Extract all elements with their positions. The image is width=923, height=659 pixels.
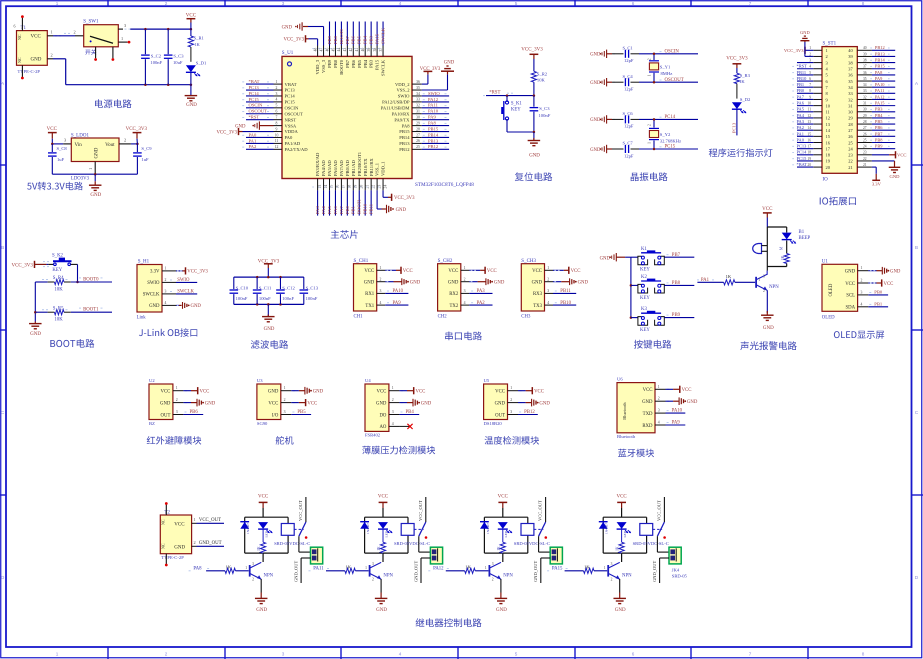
svg-text:2: 2 (252, 577, 254, 581)
svg-text:2: 2 (74, 30, 76, 35)
svg-text:6: 6 (632, 651, 635, 656)
net label VCC_OUT at T2 (192, 522, 197, 524)
svg-text:4: 4 (399, 1, 402, 6)
svg-text:GND: GND (191, 304, 202, 309)
svg-text:PB0: PB0 (345, 205, 350, 214)
relay coil SRD-05VDC-SL-C PA11 (401, 524, 414, 536)
U2 pin 3 OUT (173, 414, 184, 416)
svg-text:LDO3V3: LDO3V3 (71, 177, 90, 182)
net label PA1 alarm (697, 281, 723, 283)
power port VCC U5 (520, 390, 522, 392)
svg-text:1: 1 (380, 266, 382, 270)
svg-text:GND: GND (376, 608, 387, 613)
svg-text:JK4: JK4 (672, 567, 680, 572)
title module FSR402 (362, 446, 435, 455)
svg-text:5: 5 (515, 1, 518, 6)
U1 pin 25 PB12 (412, 148, 422, 150)
svg-text:PB15: PB15 (875, 64, 886, 69)
svg-text:PB4: PB4 (875, 113, 883, 118)
svg-text:2: 2 (809, 52, 811, 56)
svg-text:Bluetooth: Bluetooth (617, 434, 636, 439)
svg-text:S_D2: S_D2 (740, 97, 751, 102)
capacitor S_C2 100nF (144, 29, 146, 54)
ST1 pin 15 (813, 135, 822, 137)
ground GND J-Link pin4 (176, 304, 179, 306)
ground GND U6 (667, 400, 669, 402)
svg-text:PA4: PA4 (797, 113, 805, 118)
svg-text:PB10: PB10 (363, 203, 368, 214)
svg-text:2: 2 (648, 124, 652, 126)
svg-text:1: 1 (658, 385, 660, 389)
svg-text:2: 2 (611, 577, 613, 581)
svg-text:GND: GND (205, 401, 216, 406)
svg-text:NC: NC (17, 57, 22, 63)
wire relay snubber frame PA15 (603, 517, 646, 562)
svg-text:7: 7 (809, 83, 811, 87)
net label PA10 U6 (666, 412, 686, 414)
svg-text:VBAT: VBAT (285, 82, 297, 87)
connector S_CH1 body (354, 264, 377, 311)
svg-text:45: 45 (331, 48, 335, 52)
emitter wire to ground relay PA11 (380, 579, 382, 593)
svg-text:S_C8: S_C8 (57, 146, 68, 151)
svg-text:4: 4 (392, 422, 394, 426)
svg-text:*BAT: *BAT (249, 79, 260, 84)
U3 pin 2 VCC (281, 402, 292, 404)
svg-text:23: 23 (863, 151, 867, 155)
CH2 pin 2 GND (461, 281, 470, 283)
relay contact dashed link PA15 (653, 528, 662, 530)
relay pole wire VCC_OUT PA8 (305, 497, 307, 522)
svg-text:3: 3 (392, 410, 394, 414)
ST1 pin 14 (813, 129, 822, 131)
svg-text:VCC: VCC (174, 522, 185, 527)
LED relay PA11 (378, 522, 388, 529)
svg-text:2: 2 (492, 577, 494, 581)
svg-text:4: 4 (399, 651, 402, 656)
svg-text:PA5/AD: PA5/AD (327, 160, 332, 176)
svg-text:PB6: PB6 (351, 59, 356, 68)
svg-text:VCC: VCC (378, 494, 389, 499)
svg-text:1: 1 (485, 566, 487, 570)
svg-text:*RST: *RST (249, 115, 260, 120)
svg-text:*RST: *RST (797, 64, 808, 69)
title OLED display (834, 331, 884, 339)
svg-text:100nF: 100nF (150, 60, 162, 65)
svg-text:PA9: PA9 (672, 421, 681, 426)
ST1 pin 32 (857, 98, 872, 100)
ground GND alarm (766, 311, 768, 315)
ST1 pin 3 (813, 62, 822, 64)
U1 pin 16 PA6/AD (334, 179, 336, 191)
ST1 pin 17 (813, 148, 822, 150)
ST1 pin 20 (813, 166, 822, 168)
svg-text:PA0: PA0 (249, 132, 257, 137)
LED alarm (786, 227, 788, 233)
capacitor S_C1 12pF (613, 53, 615, 55)
SW1 bottom pins (95, 47, 97, 59)
svg-text:BOOT0: BOOT0 (339, 28, 344, 44)
svg-text:5: 5 (809, 71, 811, 75)
svg-text:GND: GND (578, 281, 589, 286)
svg-text:GND: GND (174, 545, 185, 550)
svg-text:CH2: CH2 (438, 315, 448, 320)
ST1 pin 24 (857, 148, 872, 150)
terminal bottom pin to GND_OUT PA15 (660, 557, 669, 559)
net label PB8 (664, 284, 694, 286)
svg-text:OSCIN: OSCIN (285, 106, 299, 111)
svg-text:38: 38 (863, 58, 867, 62)
svg-text:1N4007: 1N4007 (605, 523, 609, 534)
switch S_SW1 (84, 25, 119, 47)
svg-text:6: 6 (14, 24, 16, 29)
svg-text:NPN: NPN (383, 573, 393, 578)
svg-text:VCC_OUT: VCC_OUT (418, 500, 423, 521)
svg-text:SRD-05VDC-SL-C: SRD-05VDC-SL-C (394, 541, 430, 546)
svg-text:S_R4: S_R4 (53, 276, 64, 281)
svg-text:1: 1 (51, 30, 53, 35)
svg-text:21: 21 (848, 165, 852, 170)
ground GND CH3 (553, 281, 561, 283)
svg-text:PB12: PB12 (428, 144, 439, 149)
svg-text:41: 41 (355, 48, 359, 52)
emitter wire to ground relay PA12 (500, 579, 502, 593)
svg-text:U3: U3 (257, 378, 263, 383)
svg-text:31: 31 (416, 110, 420, 114)
connector S_CH2 body (438, 264, 461, 311)
svg-text:6: 6 (809, 77, 811, 81)
svg-text:GND: GND (396, 208, 407, 213)
wire relay snubber frame PA8 (245, 517, 288, 562)
svg-text:10K: 10K (54, 318, 63, 323)
ground GND relay PA8 (260, 593, 262, 599)
svg-text:26: 26 (416, 139, 420, 143)
emitter wire to ground relay PA15 (619, 579, 621, 593)
relay NO contact wire PA12 (538, 536, 540, 552)
svg-text:C: C (1, 410, 5, 416)
svg-text:PB1: PB1 (797, 82, 805, 87)
svg-text:VDD_1: VDD_1 (381, 161, 386, 176)
svg-text:VCC_3V3: VCC_3V3 (784, 48, 804, 53)
svg-text:PA6: PA6 (333, 206, 338, 214)
svg-text:1: 1 (826, 48, 828, 53)
svg-text:100nF: 100nF (259, 296, 271, 301)
U1 pin 24 VDD_1 (382, 179, 384, 191)
svg-text:TX3: TX3 (533, 304, 542, 309)
LDO GND pin down (94, 162, 96, 175)
resistor S_R5 10K (54, 310, 64, 315)
U1 pin 29 PA8 (412, 125, 422, 127)
svg-text:39: 39 (367, 48, 371, 52)
svg-text:38: 38 (373, 48, 377, 52)
svg-text:1K: 1K (194, 42, 200, 47)
svg-text:3: 3 (510, 410, 512, 414)
net label PA10 (385, 292, 408, 294)
svg-text:32: 32 (416, 104, 420, 108)
CH3 pin 1 VCC (545, 269, 554, 271)
svg-text:VCC: VCC (200, 390, 210, 395)
svg-text:1uF: 1uF (141, 157, 149, 162)
svg-text:OSCIN: OSCIN (249, 103, 263, 108)
svg-text:3.3V: 3.3V (150, 270, 160, 275)
U5 pin 1 VCC (508, 390, 519, 392)
CH1 pin 4 TX1 (377, 304, 386, 306)
svg-text:VCC: VCC (762, 207, 773, 212)
svg-text:29: 29 (863, 114, 867, 118)
power port VCC OLED (868, 282, 876, 284)
svg-text:2: 2 (194, 540, 196, 545)
svg-text:VCC: VCC (487, 269, 497, 274)
svg-text:2: 2 (165, 278, 167, 282)
svg-text:PA12/USB/DP: PA12/USB/DP (382, 100, 410, 105)
svg-text:PB6: PB6 (351, 35, 356, 44)
svg-text:PB4: PB4 (406, 410, 415, 415)
net label PB7 (664, 256, 694, 258)
svg-text:36: 36 (416, 80, 420, 84)
svg-text:PA4: PA4 (321, 206, 326, 214)
title serial port circuit (445, 332, 482, 341)
svg-text:TX2: TX2 (450, 304, 459, 309)
U1 pin 22 PB11/RX (370, 179, 372, 191)
U1 pin 26 PB13 (412, 142, 422, 144)
svg-text:VCC_3V3: VCC_3V3 (283, 38, 304, 43)
relay pole wire VCC_OUT PA12 (545, 497, 547, 522)
svg-text:SWCLK: SWCLK (143, 293, 160, 298)
svg-text:VCC_OUT: VCC_OUT (657, 500, 662, 521)
svg-text:PB7: PB7 (345, 35, 350, 44)
svg-text:PA3/RX/AD: PA3/RX/AD (315, 152, 320, 176)
push button K1 KEY (631, 256, 638, 258)
svg-text:PC15: PC15 (665, 145, 676, 150)
net label PB5 U3 (291, 414, 311, 416)
U1 pin 39 PB3 (370, 46, 372, 57)
connector T1 TYPE-C-2P (17, 31, 48, 66)
power port VCC_3V3 at U1 VDDA pin 9 (243, 131, 274, 133)
relay lever PA15 (657, 522, 664, 536)
svg-text:6: 6 (632, 1, 635, 6)
title J-Link OB interface (139, 328, 197, 337)
U1 pin 21 PB10/TX (364, 179, 366, 191)
power port VCC U2 (185, 390, 187, 392)
wire crystal row net OSCOUT (639, 81, 698, 83)
svg-text:PB2/BOOT1: PB2/BOOT1 (357, 151, 362, 176)
OLED pin 4 SDA (858, 306, 869, 308)
relay lever PA11 (419, 522, 426, 536)
svg-text:U6: U6 (617, 377, 623, 382)
net label SWCLK (176, 293, 197, 295)
svg-text:1: 1 (88, 168, 93, 170)
svg-text:GND: GND (448, 281, 459, 286)
svg-text:2: 2 (372, 577, 374, 581)
svg-text:PB14: PB14 (428, 132, 439, 137)
ST1 pin 35 (857, 80, 872, 82)
svg-text:FSR402: FSR402 (365, 433, 381, 438)
svg-text:NPN: NPN (264, 573, 274, 578)
svg-text:4: 4 (861, 302, 863, 306)
relay contact dashed link PA11 (414, 528, 423, 530)
svg-text:PC13: PC13 (285, 88, 296, 93)
svg-text:100nF: 100nF (306, 296, 318, 301)
svg-text:32: 32 (848, 97, 852, 102)
svg-text:10: 10 (275, 133, 279, 137)
U1 pin 5 OSCIN (274, 107, 283, 109)
svg-text:PB1: PB1 (874, 301, 883, 306)
relay coil SRD-05VDC-SL-C PA8 (281, 524, 294, 536)
svg-text:PB8: PB8 (333, 35, 338, 44)
capacitor S_C3 10uF (167, 29, 169, 54)
U3 pin 3 I/O (281, 414, 292, 416)
LDO regulator S_LDO1 (63, 143, 71, 145)
wire BOOT0 row (35, 281, 47, 283)
svg-text:S_CH1: S_CH1 (354, 259, 369, 264)
svg-text:5: 5 (515, 651, 518, 656)
svg-text:100nF: 100nF (539, 113, 551, 118)
svg-text:24: 24 (383, 185, 387, 189)
wire relay snubber frame PA11 (365, 517, 408, 562)
U1 pin 7 NRST (274, 119, 283, 121)
svg-text:1: 1 (284, 386, 286, 390)
CH1 pin 1 VCC (377, 269, 386, 271)
ST1 pin 12 (813, 117, 822, 119)
svg-text:GND: GND (539, 401, 550, 406)
svg-text:SWCLK: SWCLK (380, 27, 385, 44)
svg-text:PC13: PC13 (797, 144, 808, 149)
SW1 pin 1 no-connect (118, 41, 127, 43)
svg-text:PA10: PA10 (672, 409, 683, 414)
svg-text:NPN: NPN (769, 285, 779, 290)
U1 pin 1 VBAT (274, 83, 283, 85)
svg-text:1: 1 (809, 46, 811, 50)
svg-text:2: 2 (165, 1, 168, 6)
U1 pin 35 VSS_2 (412, 89, 422, 91)
U6 pin 2 GND (655, 400, 666, 402)
H1 pin 4 GND (162, 304, 176, 306)
wire crystal row net PC15 (639, 148, 698, 150)
svg-text:GND: GND (90, 193, 101, 198)
ST1 pin 23 (857, 154, 872, 156)
svg-text:35: 35 (863, 77, 867, 81)
svg-text:KEY: KEY (511, 108, 521, 113)
ground GND CH2 (469, 281, 477, 283)
resistor 1K relay LED PA15 (621, 529, 623, 542)
H1 pin 2 SWIO (162, 281, 176, 283)
svg-text:NC: NC (161, 543, 166, 549)
svg-text:9: 9 (276, 127, 278, 131)
relay contact dashed link PA8 (294, 528, 303, 530)
svg-text:Vin: Vin (75, 143, 83, 148)
svg-text:S_R3: S_R3 (740, 73, 751, 78)
ST1 pin 28 (857, 123, 872, 125)
CH2 pin 3 RX2 (461, 292, 470, 294)
svg-text:PA6: PA6 (797, 101, 805, 106)
svg-text:TX1: TX1 (365, 304, 374, 309)
U1 pin 9 VDDA (274, 131, 283, 133)
title program running indicator (709, 148, 773, 157)
svg-text:STM32F103C8T6_LQFP48: STM32F103C8T6_LQFP48 (415, 182, 474, 188)
svg-text:VDD_3: VDD_3 (315, 59, 320, 74)
wire BOOT1 row (35, 311, 47, 313)
svg-text:2: 2 (510, 398, 512, 402)
CH2 pin 1 VCC (461, 269, 470, 271)
svg-text:7: 7 (749, 1, 752, 6)
CH3 pin 3 RX3 (545, 292, 554, 294)
svg-text:7: 7 (749, 651, 752, 656)
svg-text:11: 11 (808, 108, 812, 112)
svg-text:2: 2 (165, 651, 168, 656)
svg-text:B: B (1, 245, 4, 251)
svg-text:PB11: PB11 (369, 203, 374, 214)
terminal block green connector PA15 (669, 547, 681, 564)
svg-text:GND: GND (313, 390, 324, 395)
U1 pin 27 PB14 (412, 136, 422, 138)
wire GND rail bottom (66, 84, 191, 86)
svg-text:40: 40 (863, 46, 867, 50)
capacitor S_C3 100nF reset (533, 96, 535, 107)
svg-text:GND: GND (494, 281, 505, 286)
svg-text:PB10: PB10 (560, 301, 571, 306)
svg-text:VDD_2: VDD_2 (395, 82, 410, 87)
svg-text:PA7: PA7 (797, 94, 805, 99)
svg-text:VCC: VCC (643, 388, 653, 393)
svg-text:KEY: KEY (52, 268, 62, 273)
svg-text:S_LDO1: S_LDO1 (71, 133, 90, 138)
svg-text:GND_OUT: GND_OUT (293, 561, 298, 582)
svg-text:1N4007: 1N4007 (486, 523, 490, 534)
svg-text:PB5: PB5 (357, 35, 362, 44)
svg-text:8: 8 (862, 1, 865, 6)
svg-text:K2: K2 (641, 275, 647, 280)
ground GND BOOT (34, 322, 36, 324)
svg-text:PB3: PB3 (875, 107, 883, 112)
svg-text:100nF: 100nF (282, 296, 294, 301)
display U1 OLED body (822, 264, 858, 311)
svg-text:OUT: OUT (161, 413, 171, 418)
ST1 pin 13 (813, 123, 822, 125)
svg-text:PA9/TX: PA9/TX (394, 117, 410, 122)
svg-text:VCC: VCC (416, 390, 426, 395)
svg-text:VDDA: VDDA (285, 129, 299, 134)
svg-text:GND: GND (268, 390, 279, 395)
capacitor S_C4 12pF (613, 81, 615, 83)
capacitor S_C12 100nF (279, 277, 281, 289)
svg-text:SWCLK: SWCLK (177, 290, 194, 295)
svg-text:NC: NC (17, 34, 22, 40)
module U2 BZ body (149, 384, 173, 420)
svg-text:PA1: PA1 (701, 278, 710, 283)
svg-text:19: 19 (807, 157, 811, 161)
svg-text:31: 31 (863, 102, 867, 106)
svg-text:SRD-05VDC-SL-C: SRD-05VDC-SL-C (514, 541, 550, 546)
H1 pin 3 SWCLK (162, 293, 176, 295)
svg-text:VCC_3V3: VCC_3V3 (521, 47, 543, 52)
wire filter top rail (234, 276, 304, 278)
relay coil SRD-05VDC-SL-C PA12 (521, 524, 534, 536)
svg-text:TYPE-C-2P: TYPE-C-2P (18, 69, 41, 74)
svg-text:2: 2 (284, 398, 286, 402)
svg-text:PA5: PA5 (797, 107, 805, 112)
svg-text:S_Y1: S_Y1 (660, 64, 671, 69)
svg-text:*BAT: *BAT (797, 162, 808, 167)
svg-text:2: 2 (380, 277, 382, 281)
ST1 pin 11 (813, 111, 822, 113)
title BOOT circuit (50, 339, 94, 348)
svg-text:GND: GND (590, 118, 601, 123)
title filter circuit (251, 340, 288, 349)
svg-text:S_R1: S_R1 (194, 36, 205, 41)
ground GND ST1 pin 22 (872, 160, 895, 162)
svg-text:PA2: PA2 (797, 125, 804, 130)
CH2 pin 4 TX2 (461, 304, 470, 306)
